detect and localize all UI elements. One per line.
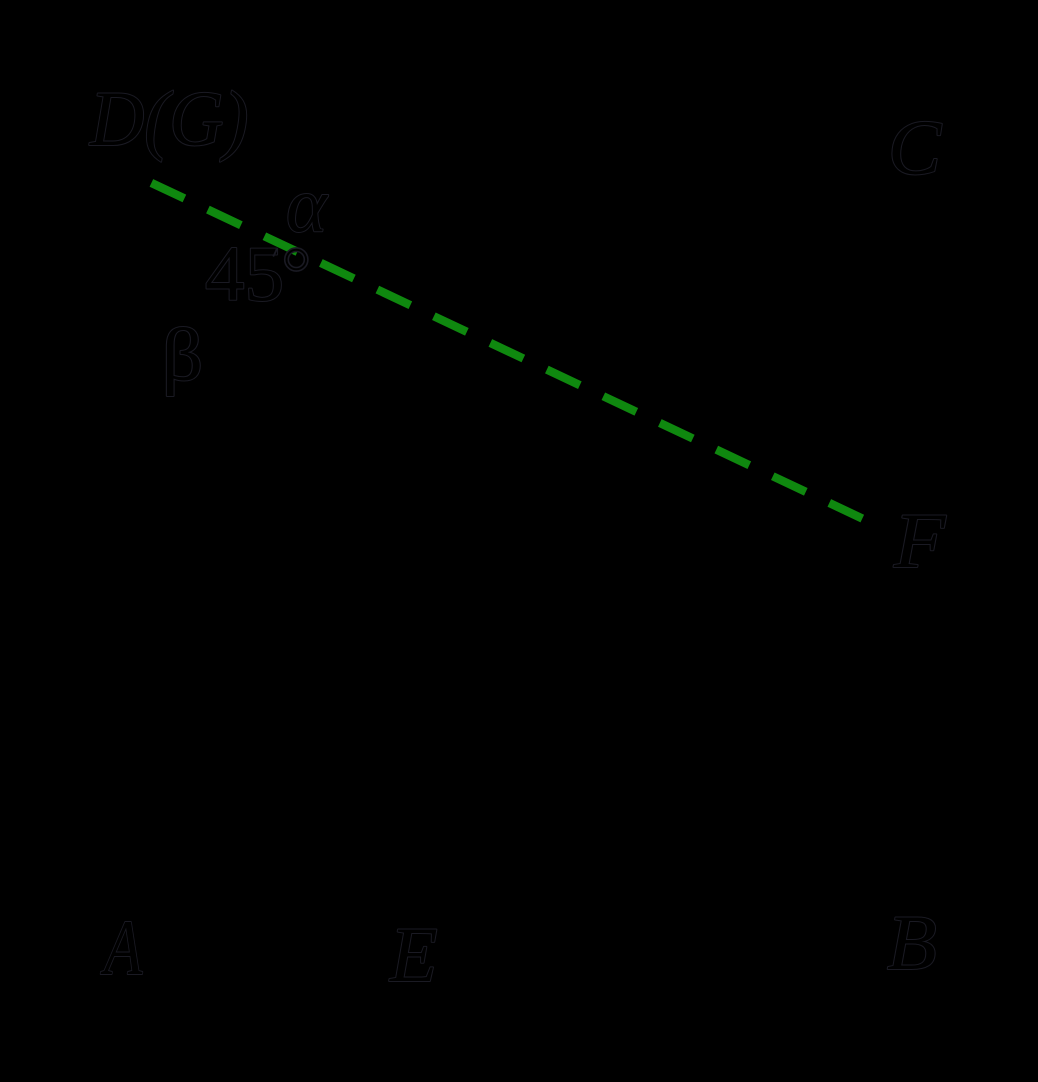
svg-text:B: B bbox=[887, 901, 937, 987]
svg-text:A: A bbox=[100, 906, 142, 992]
degree symbol of 45deg bbox=[151, 183, 863, 519]
label A bbox=[100, 906, 142, 992]
label alpha bbox=[286, 161, 329, 248]
label E bbox=[389, 911, 438, 998]
svg-text:α: α bbox=[286, 161, 329, 248]
svg-text:E: E bbox=[389, 911, 438, 998]
svg-text:45: 45 bbox=[205, 230, 284, 316]
svg-text:F: F bbox=[893, 498, 947, 584]
fold line D(G)-F green dashed bbox=[151, 183, 863, 519]
svg-text:C: C bbox=[888, 106, 943, 192]
label B bbox=[887, 901, 937, 987]
svg-text:β: β bbox=[162, 313, 204, 396]
label DG bbox=[89, 76, 248, 163]
label F bbox=[893, 498, 947, 584]
serif flag of digit 5 bbox=[273, 249, 277, 257]
label n45 bbox=[205, 230, 284, 316]
label C bbox=[888, 106, 943, 192]
svg-text:D(G): D(G) bbox=[89, 76, 248, 163]
label beta bbox=[162, 313, 204, 396]
